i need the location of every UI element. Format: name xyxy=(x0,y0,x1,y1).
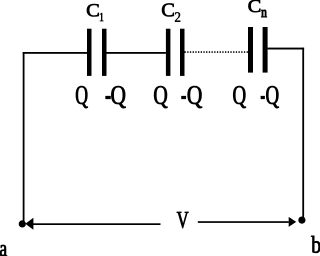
capacitor C1 left plate xyxy=(87,29,92,76)
label -Q (C2 right plate) xyxy=(182,86,202,108)
wire Cn to right corner xyxy=(268,48,305,50)
wire top rail to C1 xyxy=(23,52,88,54)
wire dotted C2 to Cn (continuation dots) xyxy=(185,51,249,53)
label -Q (Cn right plate) xyxy=(261,86,279,108)
label node a xyxy=(0,245,7,256)
label Q (Cn left plate) xyxy=(233,86,245,108)
label C1 xyxy=(87,4,103,21)
capacitor C1 right plate xyxy=(102,29,107,76)
label V xyxy=(177,212,188,228)
node a junction dot xyxy=(19,220,26,227)
label -Q (C1 right plate) xyxy=(106,86,126,108)
label node b xyxy=(311,236,320,253)
arrowhead pointing left at node a xyxy=(25,218,33,230)
label Cn xyxy=(248,0,266,17)
label Q (C1 left plate) xyxy=(76,86,88,108)
wire left vertical (node a up to top rail) xyxy=(23,52,25,223)
label Q (C2 left plate) xyxy=(154,86,167,108)
arrowhead pointing right at node b xyxy=(289,217,297,227)
wire V arrow left segment xyxy=(33,223,161,225)
capacitor Cn right plate xyxy=(263,27,268,73)
node b junction dot xyxy=(298,217,305,224)
wire right vertical (top rail down to node b) xyxy=(302,48,304,218)
label C2 xyxy=(162,3,180,21)
capacitor C2 right plate xyxy=(180,29,185,76)
capacitor Cn left plate xyxy=(248,27,253,73)
wire V arrow right segment xyxy=(198,221,289,223)
capacitor C2 left plate xyxy=(166,29,171,76)
wire C1 to C2 xyxy=(107,52,166,54)
